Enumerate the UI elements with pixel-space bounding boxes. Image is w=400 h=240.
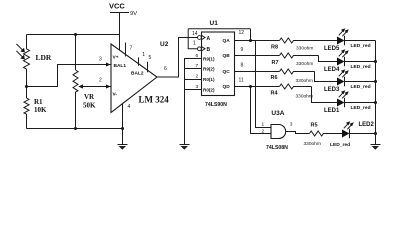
resistor R5	[304, 123, 343, 147]
resistor R6	[271, 69, 315, 84]
wire QA row	[235, 40, 280, 42]
wire bottom rail	[27, 128, 123, 130]
svg-text:VR: VR	[84, 93, 95, 101]
wire jogs to LED column	[312, 56, 338, 103]
svg-text:QB: QB	[223, 53, 231, 59]
node QD junction	[249, 85, 252, 88]
LED LED5	[324, 28, 371, 52]
wire left vertical branch	[26, 35, 28, 129]
svg-text:330ohm: 330ohm	[296, 45, 313, 51]
svg-text:QC: QC	[223, 69, 231, 75]
svg-text:74LS08N: 74LS08N	[266, 145, 288, 151]
wire top VCC rail	[27, 34, 120, 36]
node pin4 junction	[121, 127, 124, 130]
potentiometer VR 50K	[73, 33, 111, 129]
resistor R1	[24, 98, 47, 114]
LED LED4	[324, 49, 371, 73]
node VR bottom junction	[74, 127, 77, 130]
AND gate U3A 74LS08N	[262, 110, 293, 151]
svg-text:2: 2	[196, 74, 199, 80]
svg-text:R0(2): R0(2)	[203, 88, 215, 93]
svg-text:12: 12	[239, 30, 245, 36]
ground G1	[118, 129, 128, 150]
svg-text:1: 1	[193, 41, 196, 47]
LED LED2	[330, 121, 375, 148]
svg-text:2: 2	[262, 128, 265, 134]
svg-text:U2: U2	[160, 41, 169, 48]
wire divider tap to op-amp pin 3	[27, 65, 111, 87]
resistor R7	[272, 53, 319, 67]
LED LED3	[324, 69, 371, 93]
op-amp U2 LM324	[106, 41, 169, 113]
wire QA feedback to clock B over chip	[188, 29, 250, 49]
pin 7 stub	[125, 43, 127, 57]
pin 4 stub + label	[122, 104, 124, 129]
wire op-amp output up to U1 clock inputs	[157, 38, 198, 78]
svg-text:V+: V+	[113, 55, 119, 61]
svg-text:LED3: LED3	[324, 87, 340, 93]
svg-text:3: 3	[290, 122, 293, 128]
pin B bubble + clock wedge	[198, 47, 202, 51]
svg-text:R9(2): R9(2)	[203, 67, 215, 72]
pin 1 stub	[138, 57, 140, 65]
ground G3	[371, 145, 381, 150]
svg-text:LDR: LDR	[36, 53, 52, 62]
svg-text:9V: 9V	[130, 11, 137, 17]
VCC power symbol	[109, 2, 137, 18]
svg-text:B: B	[207, 47, 211, 53]
svg-text:LED_red: LED_red	[351, 105, 371, 111]
U1 74LS90N counter	[202, 20, 235, 108]
svg-text:1: 1	[142, 52, 145, 58]
svg-text:8: 8	[241, 62, 244, 68]
svg-text:A: A	[207, 36, 211, 42]
wire QD to U3A pin 2	[251, 87, 272, 134]
svg-text:9: 9	[241, 47, 244, 53]
wire QB row	[235, 55, 280, 57]
svg-text:330ohm: 330ohm	[296, 93, 313, 99]
svg-text:10K: 10K	[34, 106, 47, 114]
svg-text:2: 2	[99, 78, 102, 84]
svg-text:LED1: LED1	[324, 108, 340, 114]
svg-text:R6: R6	[271, 75, 278, 81]
svg-text:7: 7	[130, 46, 133, 52]
svg-text:1: 1	[262, 121, 265, 127]
node rail junctions	[374, 60, 377, 63]
wire LED2 cathode to rail	[350, 133, 376, 135]
wire cathode to rail	[345, 40, 376, 42]
svg-text:R7: R7	[272, 60, 279, 66]
svg-text:330ohm: 330ohm	[296, 78, 313, 84]
svg-text:LED_red: LED_red	[351, 84, 371, 90]
svg-text:LED_red: LED_red	[330, 142, 350, 148]
pin A bubble + clock wedge	[198, 36, 202, 40]
svg-text:50K: 50K	[83, 102, 96, 110]
svg-text:QD: QD	[223, 84, 231, 90]
photoresistor LDR	[16, 44, 52, 69]
svg-text:R4: R4	[271, 91, 279, 97]
svg-text:LED5: LED5	[324, 46, 340, 52]
wire cathode to rail	[345, 81, 376, 83]
svg-text:LED2: LED2	[359, 122, 375, 128]
svg-text:11: 11	[239, 78, 244, 84]
svg-text:BAL2: BAL2	[131, 71, 144, 77]
wire cathode to rail	[345, 102, 376, 104]
node divider junction	[25, 85, 28, 88]
wire cathode to rail	[345, 61, 376, 63]
svg-text:U3A: U3A	[271, 110, 284, 117]
svg-text:330ohm: 330ohm	[296, 61, 313, 67]
node QA junction	[249, 39, 252, 42]
svg-text:R0(1): R0(1)	[203, 77, 215, 82]
svg-text:5: 5	[149, 55, 152, 61]
svg-text:330ohm: 330ohm	[304, 141, 321, 147]
wire QC row	[235, 71, 280, 73]
svg-text:LED4: LED4	[324, 67, 340, 73]
svg-text:74LS90N: 74LS90N	[205, 102, 227, 108]
wire right rail	[375, 41, 377, 145]
svg-text:LED_red: LED_red	[351, 64, 371, 70]
resistor R4	[271, 84, 313, 99]
svg-text:14: 14	[192, 31, 198, 37]
LED LED1	[324, 90, 371, 114]
svg-text:LED_red: LED_red	[351, 43, 371, 49]
svg-text:4: 4	[128, 104, 131, 110]
svg-text:VCC: VCC	[109, 2, 125, 11]
wire VCC stem to op-amp top edge	[119, 13, 121, 51]
svg-text:R9(1): R9(1)	[203, 57, 215, 62]
svg-text:V-: V-	[113, 92, 118, 98]
resistor R8	[271, 38, 337, 51]
wire QD row	[235, 86, 280, 88]
svg-text:LM 324: LM 324	[139, 95, 170, 105]
ground G2	[180, 145, 190, 150]
svg-text:R5: R5	[311, 123, 318, 129]
svg-text:U1: U1	[210, 20, 219, 27]
wire reset pin bus to ground	[185, 59, 202, 145]
svg-text:3: 3	[99, 57, 102, 63]
pin 5 stub	[147, 62, 149, 73]
wire gate output	[286, 132, 310, 134]
svg-text:6: 6	[164, 66, 167, 72]
svg-text:R1: R1	[34, 98, 43, 106]
svg-text:QA: QA	[223, 38, 231, 44]
svg-text:BAL1: BAL1	[114, 63, 127, 69]
wire QA to U3A pin 1	[256, 41, 272, 128]
svg-text:R8: R8	[271, 44, 278, 50]
